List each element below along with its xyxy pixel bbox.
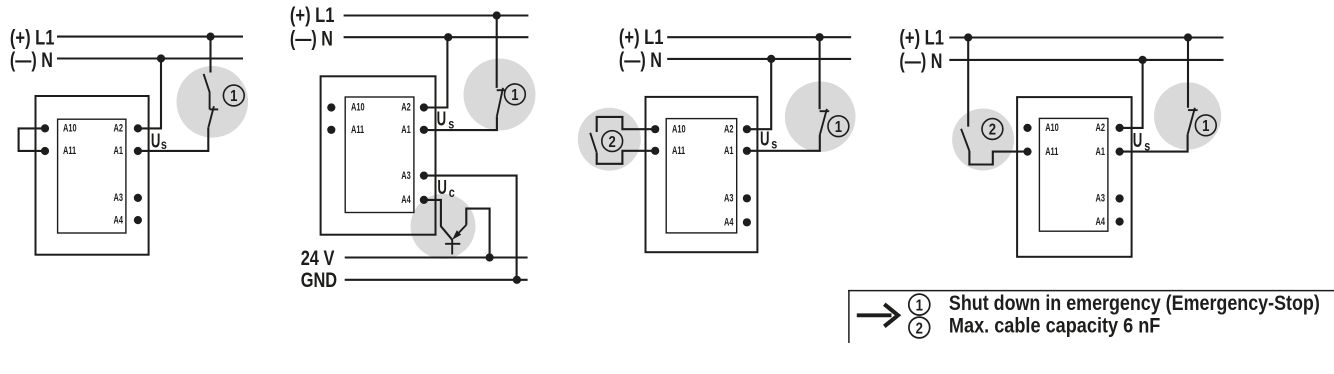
terminal A3 <box>1116 194 1124 202</box>
svg-text:A11: A11 <box>351 124 364 136</box>
device outer box <box>321 76 436 234</box>
svg-text:1: 1 <box>511 87 518 104</box>
terminal A11 <box>651 147 659 155</box>
transistor Q1 arrowhead <box>452 230 461 240</box>
svg-text:1: 1 <box>1202 118 1209 135</box>
node junction N/A2 <box>157 54 165 62</box>
legend border top <box>848 290 1334 292</box>
svg-text:1: 1 <box>230 88 237 105</box>
svg-text:s: s <box>1144 139 1150 154</box>
terminal A2 <box>1116 124 1124 132</box>
svg-text:24 V: 24 V <box>301 246 335 269</box>
terminal A2 <box>420 103 428 111</box>
transistor Q1 emitter stem <box>451 239 453 254</box>
svg-text:A4: A4 <box>114 214 124 226</box>
switch S1 top lead <box>819 37 821 109</box>
svg-text:s: s <box>448 116 454 131</box>
wire L1 rail <box>57 36 243 38</box>
wire S1 to A1 <box>138 128 208 151</box>
wire L1 rail <box>344 14 529 16</box>
wire A3 to GND <box>424 176 517 280</box>
wire N rail <box>344 36 529 38</box>
svg-text:A1: A1 <box>401 124 410 136</box>
terminal A10 <box>1023 124 1031 132</box>
svg-text:(+) L1: (+) L1 <box>619 26 664 50</box>
svg-text:A1: A1 <box>114 145 123 157</box>
transistor Q1 collector path to 24V <box>466 209 489 257</box>
svg-text:(—) N: (—) N <box>899 50 942 74</box>
wire S1 to A1 <box>1120 135 1188 152</box>
transistor Q1 arrow lead <box>456 225 467 236</box>
svg-text:c: c <box>449 185 455 200</box>
svg-text:U: U <box>760 128 770 150</box>
switch S1 actuator highlight circle <box>177 66 249 138</box>
wire S2 to A11 <box>597 151 656 164</box>
terminal A11 <box>327 126 335 134</box>
svg-text:U: U <box>151 130 161 152</box>
switch S1 blade <box>497 88 503 116</box>
svg-text:U: U <box>437 108 447 130</box>
svg-text:A2: A2 <box>724 123 733 135</box>
switch S2 top lead <box>967 38 969 127</box>
terminal A10 <box>41 124 49 132</box>
wire A2 to N <box>747 59 771 129</box>
terminal A11 <box>41 147 49 155</box>
callout circle 1 <box>223 85 244 106</box>
terminal A1 <box>134 147 142 155</box>
device outer box <box>1017 97 1132 257</box>
switch S1 actuator highlight circle <box>1154 82 1221 149</box>
svg-text:A10: A10 <box>672 123 686 135</box>
svg-text:(+) L1: (+) L1 <box>290 4 335 28</box>
terminal A2 <box>743 125 751 133</box>
switch S1 top lead <box>496 16 498 88</box>
svg-text:A10: A10 <box>351 101 365 113</box>
node junction L1/S2 <box>964 33 972 41</box>
svg-text:A11: A11 <box>672 145 685 157</box>
terminal A1 <box>1116 148 1124 156</box>
wire N rail <box>57 57 243 59</box>
wire GND rail <box>345 279 528 281</box>
terminal A3 <box>743 194 751 202</box>
svg-text:A4: A4 <box>1096 216 1106 228</box>
svg-text:A11: A11 <box>63 145 76 157</box>
svg-text:1: 1 <box>916 297 923 314</box>
switch S1 lower blade <box>208 106 214 128</box>
node junction L1/S1 <box>816 33 824 41</box>
svg-text:A3: A3 <box>114 192 123 204</box>
callout circle 1 <box>828 116 849 137</box>
terminal A10 <box>651 125 659 133</box>
switch S1 blade <box>1188 108 1195 135</box>
switch S1 contact bar <box>820 110 830 112</box>
node junction N/A2 <box>767 55 775 63</box>
callout circle 2 <box>982 119 1003 140</box>
switch S1 contact bar <box>497 89 506 91</box>
wire jumper A10-A11 <box>19 128 45 151</box>
wire A2 to N <box>138 59 161 129</box>
terminal A1 <box>743 147 751 155</box>
switch S1 contact bar <box>210 108 219 110</box>
device inner box <box>345 97 414 213</box>
svg-text:A1: A1 <box>724 145 733 157</box>
svg-text:A2: A2 <box>1096 122 1105 134</box>
switch S1 contact bar <box>1188 109 1198 111</box>
wire N rail <box>949 59 1223 61</box>
wire S2 to A11 <box>969 151 1027 165</box>
terminal A4 <box>420 196 428 204</box>
svg-text:2: 2 <box>989 122 996 139</box>
switch S2 blade <box>961 129 969 151</box>
wire N rail <box>667 58 851 60</box>
svg-text:GND: GND <box>301 268 337 291</box>
node junction L1/S1 <box>206 33 214 41</box>
node junction L1/S1 <box>493 11 501 19</box>
svg-text:A10: A10 <box>63 122 77 134</box>
terminal A11 <box>1023 148 1031 156</box>
svg-text:2: 2 <box>609 134 616 151</box>
wire A2 to N <box>424 37 448 107</box>
terminal A4 <box>134 216 142 224</box>
legend callout circle 2 <box>909 317 930 338</box>
svg-text:(—) N: (—) N <box>619 49 662 73</box>
svg-text:Max. cable capacity 6 nF: Max. cable capacity 6 nF <box>949 314 1160 338</box>
svg-text:Shut down in emergency (Emerge: Shut down in emergency (Emergency-Stop) <box>949 292 1320 316</box>
switch S1 top lead <box>209 37 211 73</box>
svg-text:A3: A3 <box>401 170 410 182</box>
terminal A3 <box>134 194 142 202</box>
callout circle 1 <box>1195 115 1216 136</box>
legend arrow shaft <box>857 313 892 317</box>
node junction N/A2 <box>1139 56 1147 64</box>
device outer box <box>646 97 758 252</box>
svg-text:A11: A11 <box>1045 146 1058 158</box>
switch S1 upper blade <box>204 74 210 110</box>
callout circle 1 <box>505 84 526 105</box>
wire S1 to A1 <box>747 135 820 151</box>
svg-text:2: 2 <box>916 320 923 337</box>
legend callout circle 1 <box>909 294 930 315</box>
node junction N/A2 <box>444 33 452 41</box>
svg-text:A4: A4 <box>724 216 734 228</box>
terminal A3 <box>420 172 428 180</box>
switch S1 top lead <box>1187 38 1189 108</box>
callout circle 2 <box>602 131 623 152</box>
svg-text:A10: A10 <box>1045 122 1059 134</box>
device inner box <box>666 119 737 233</box>
terminal A4 <box>743 218 751 226</box>
node junction GND <box>513 276 521 284</box>
svg-text:U: U <box>1133 129 1143 151</box>
device inner box <box>58 119 126 233</box>
svg-text:A2: A2 <box>114 122 123 134</box>
svg-text:A2: A2 <box>401 101 410 113</box>
svg-text:s: s <box>771 136 777 151</box>
terminal A2 <box>134 124 142 132</box>
legend border left <box>848 291 850 343</box>
svg-text:(+) L1: (+) L1 <box>10 27 55 51</box>
svg-text:(—) N: (—) N <box>290 28 333 52</box>
node junction L1/S1 <box>1184 33 1192 41</box>
svg-text:A3: A3 <box>724 192 733 204</box>
terminal A4 <box>1116 218 1124 226</box>
terminal A10 <box>327 103 335 111</box>
switch S1 actuator highlight circle <box>785 81 856 152</box>
wire S1 to A1 <box>424 116 497 130</box>
switch S2 actuator highlight circle <box>578 108 641 171</box>
svg-text:(+) L1: (+) L1 <box>899 27 944 51</box>
svg-text:A3: A3 <box>1096 192 1105 204</box>
switch S1 actuator highlight circle <box>464 59 536 131</box>
svg-text:A1: A1 <box>1096 146 1105 158</box>
terminal A1 <box>420 126 428 134</box>
node junction 24V <box>486 253 494 261</box>
svg-text:s: s <box>161 137 167 152</box>
legend arrow head <box>884 304 898 326</box>
transistor Q1 crossbar <box>445 243 460 245</box>
svg-text:U: U <box>437 176 447 198</box>
switch S1 blade <box>820 109 827 135</box>
device inner box <box>1039 118 1108 231</box>
wire 24V rail <box>345 256 528 258</box>
wire A2 to N <box>1120 60 1143 128</box>
transistor output highlight circle <box>411 194 476 259</box>
svg-text:1: 1 <box>835 119 842 136</box>
switch S2 actuator highlight circle <box>952 109 1014 171</box>
wire L1 rail <box>949 36 1223 38</box>
svg-text:(—) N: (—) N <box>10 49 53 73</box>
device outer box <box>36 96 149 255</box>
wire L1 rail <box>667 36 851 38</box>
wire A10 to S2 <box>597 117 656 132</box>
svg-text:A4: A4 <box>401 194 411 206</box>
switch S2 blade <box>590 133 597 153</box>
wire A4 to transistor base <box>424 200 452 240</box>
